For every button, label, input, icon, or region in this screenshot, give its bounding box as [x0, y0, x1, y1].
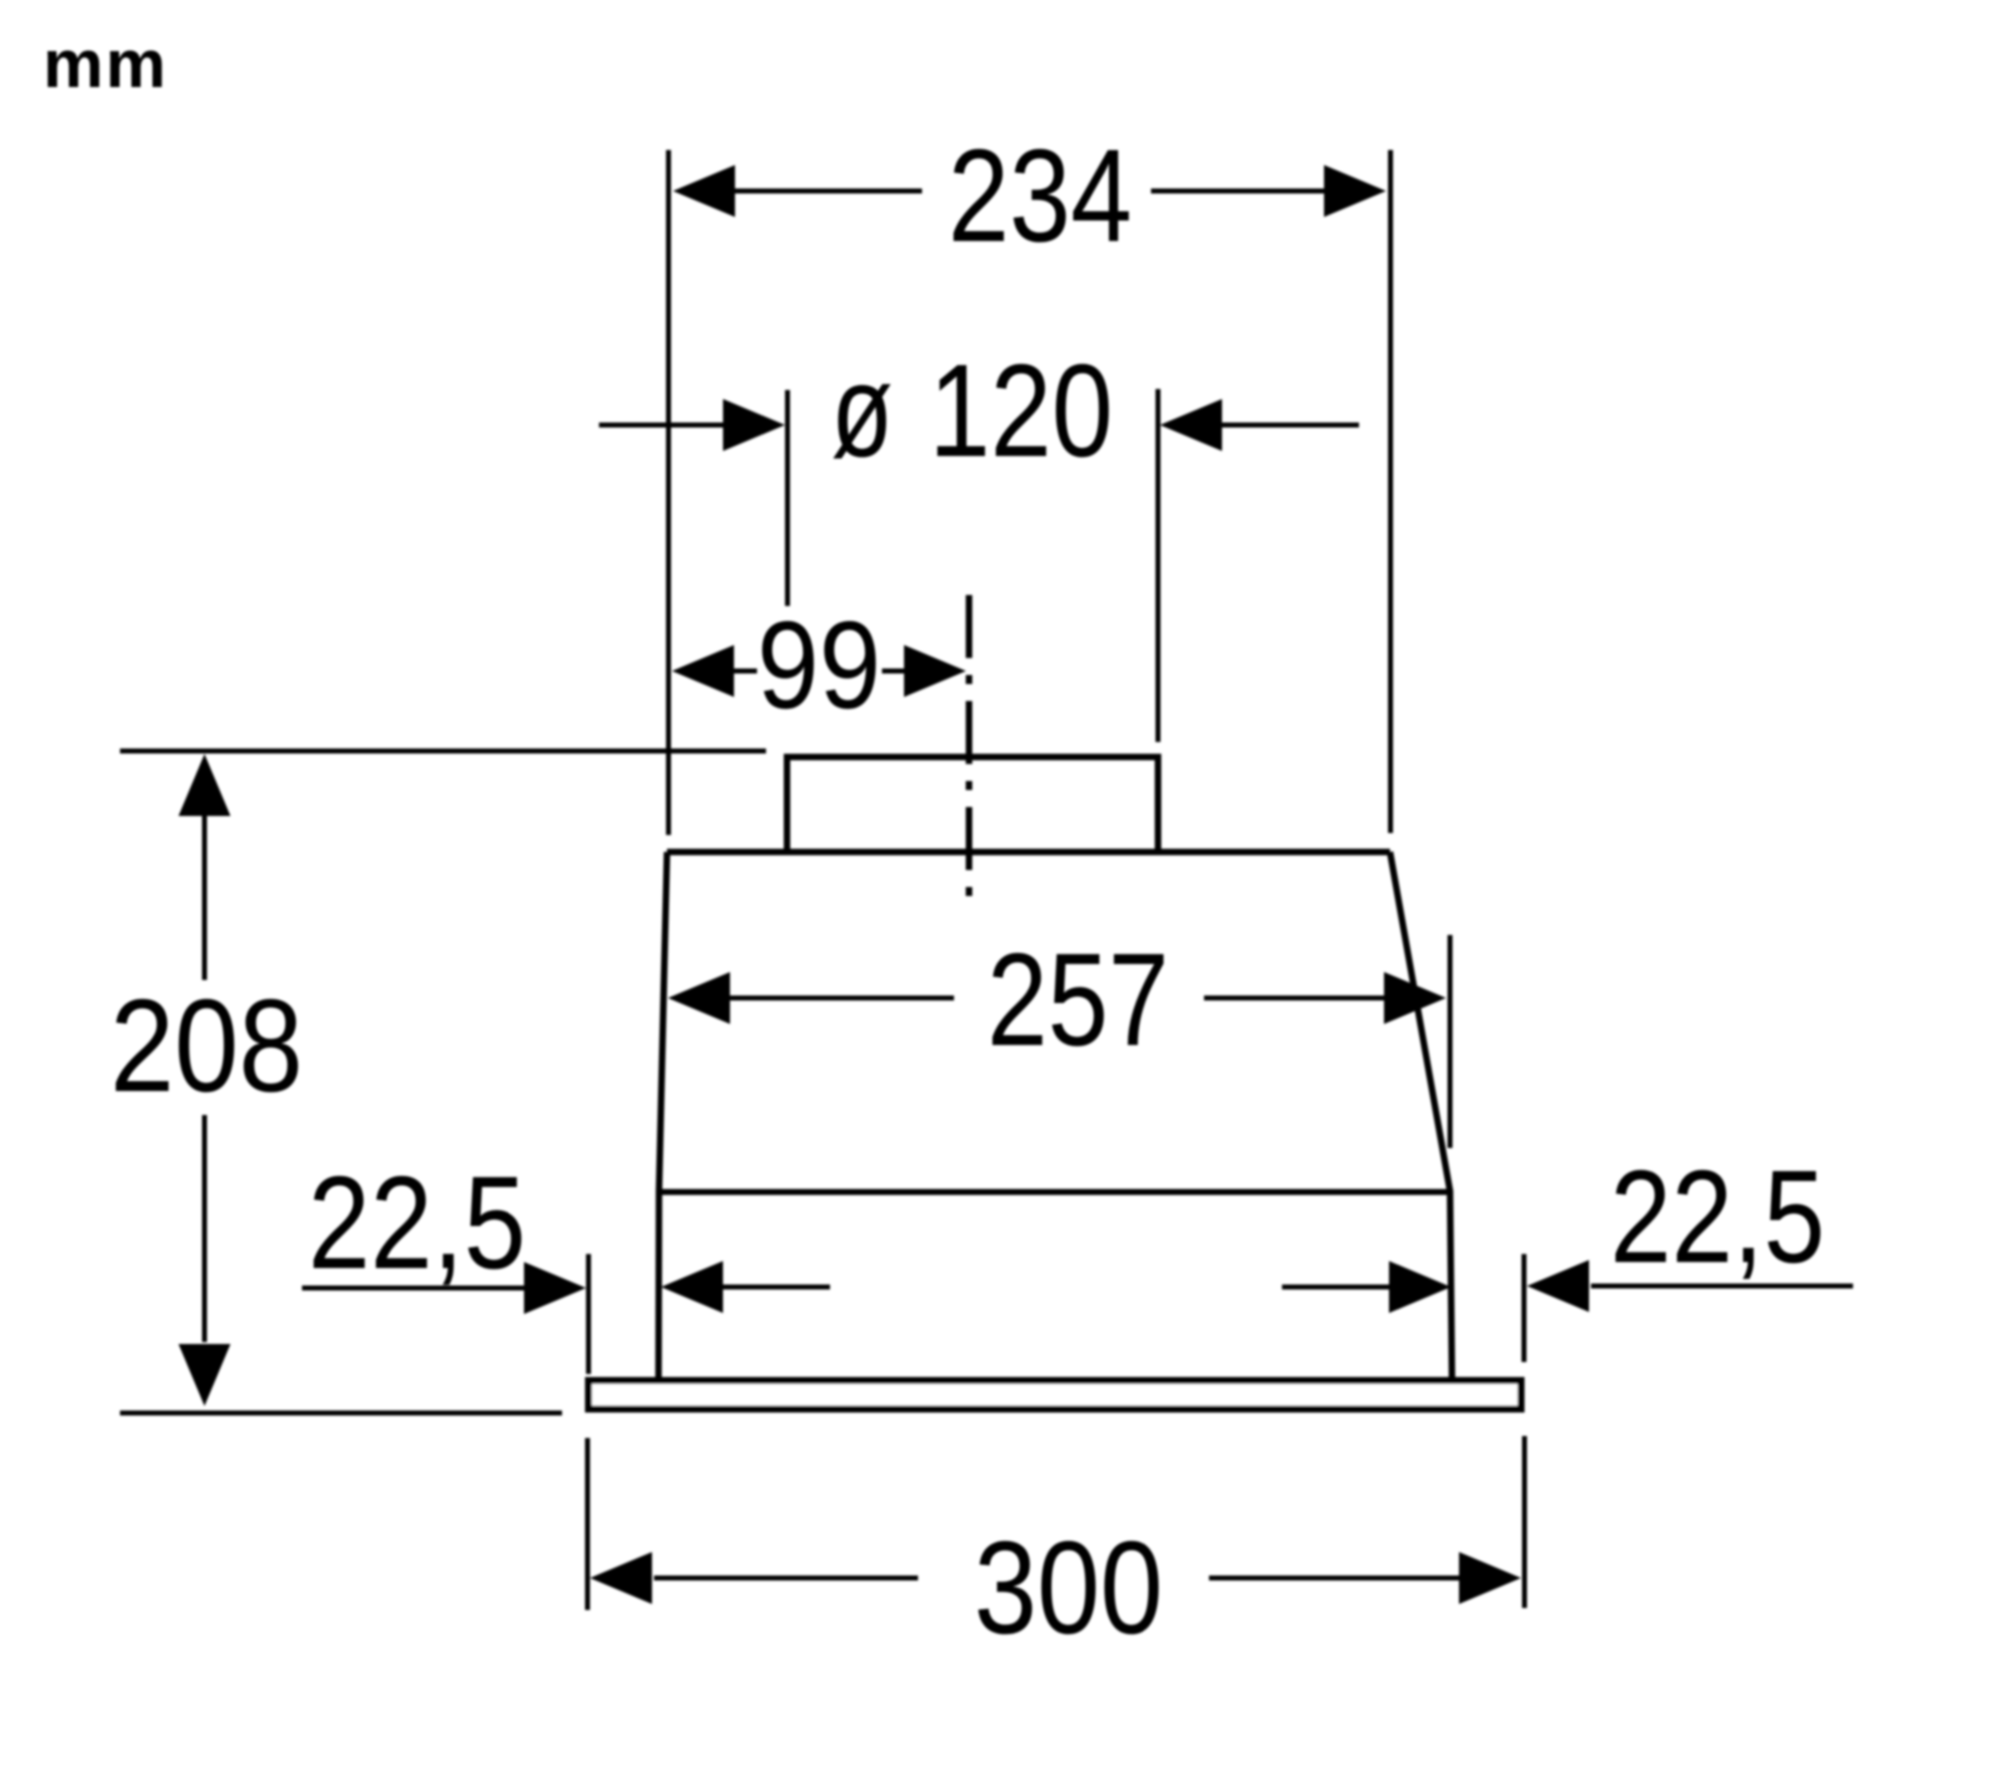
right 22,5 arrow	[1591, 1284, 1853, 1289]
dimension 208 vertical line lower segment	[202, 1115, 207, 1342]
reference line bottom (208 lower datum)	[120, 1411, 562, 1416]
svg-text:257: 257	[987, 926, 1169, 1073]
dimension 257 left arrow	[730, 996, 954, 1001]
svg-text:120: 120	[929, 337, 1113, 484]
svg-text:99: 99	[757, 597, 881, 735]
reference line top (208 upper datum)	[120, 749, 766, 754]
duct collar box	[787, 757, 1158, 852]
svg-text:22,5: 22,5	[308, 1149, 526, 1296]
dimension 99 left arrow	[734, 669, 757, 674]
tick right of 257	[1448, 935, 1453, 1148]
dimension ø120 left arrow	[599, 423, 723, 428]
tick left of diameter 120	[785, 390, 790, 606]
hood right edge	[1390, 852, 1452, 1380]
left 22,5 arrow	[302, 1286, 526, 1291]
svg-text:208: 208	[110, 972, 303, 1119]
svg-text:22,5: 22,5	[1610, 1143, 1825, 1290]
dimension 99 right arrow	[882, 669, 904, 674]
hood top edge	[667, 849, 1390, 856]
extension line left of 234	[666, 150, 671, 835]
extension tick left of 300	[585, 1438, 590, 1610]
hood left edge	[659, 852, 668, 1380]
right inner arrow to hood edge	[1282, 1285, 1389, 1290]
tick right of diameter 120	[1156, 389, 1161, 742]
dimension ø120 right arrow	[1222, 423, 1359, 428]
left 22,5 tick	[586, 1254, 591, 1374]
svg-text:ø: ø	[831, 337, 893, 484]
right 22,5 tick	[1522, 1254, 1527, 1362]
dimension 208 up arrowhead	[179, 754, 231, 816]
dimension 234 right arrow	[1151, 189, 1324, 194]
svg-text:mm: mm	[43, 26, 168, 102]
centerline of duct	[966, 595, 973, 899]
extension line right of 234	[1388, 150, 1393, 833]
dimension 234 left arrow	[735, 189, 922, 194]
extension tick right of 300	[1522, 1436, 1527, 1608]
svg-text:300: 300	[974, 1514, 1163, 1661]
left inner arrow to hood edge	[723, 1285, 830, 1290]
dimension 208 vertical line upper segment	[202, 812, 207, 980]
dimension 300 right arrow	[1209, 1576, 1460, 1581]
bottom mounting plate	[589, 1381, 1522, 1410]
dimension 257 right arrow	[1204, 996, 1384, 1001]
hood inner horizontal line	[659, 1189, 1450, 1195]
dimension 208 down arrowhead	[179, 1344, 231, 1406]
dimension 300 left arrow	[654, 1576, 918, 1581]
svg-text:234: 234	[948, 122, 1132, 269]
